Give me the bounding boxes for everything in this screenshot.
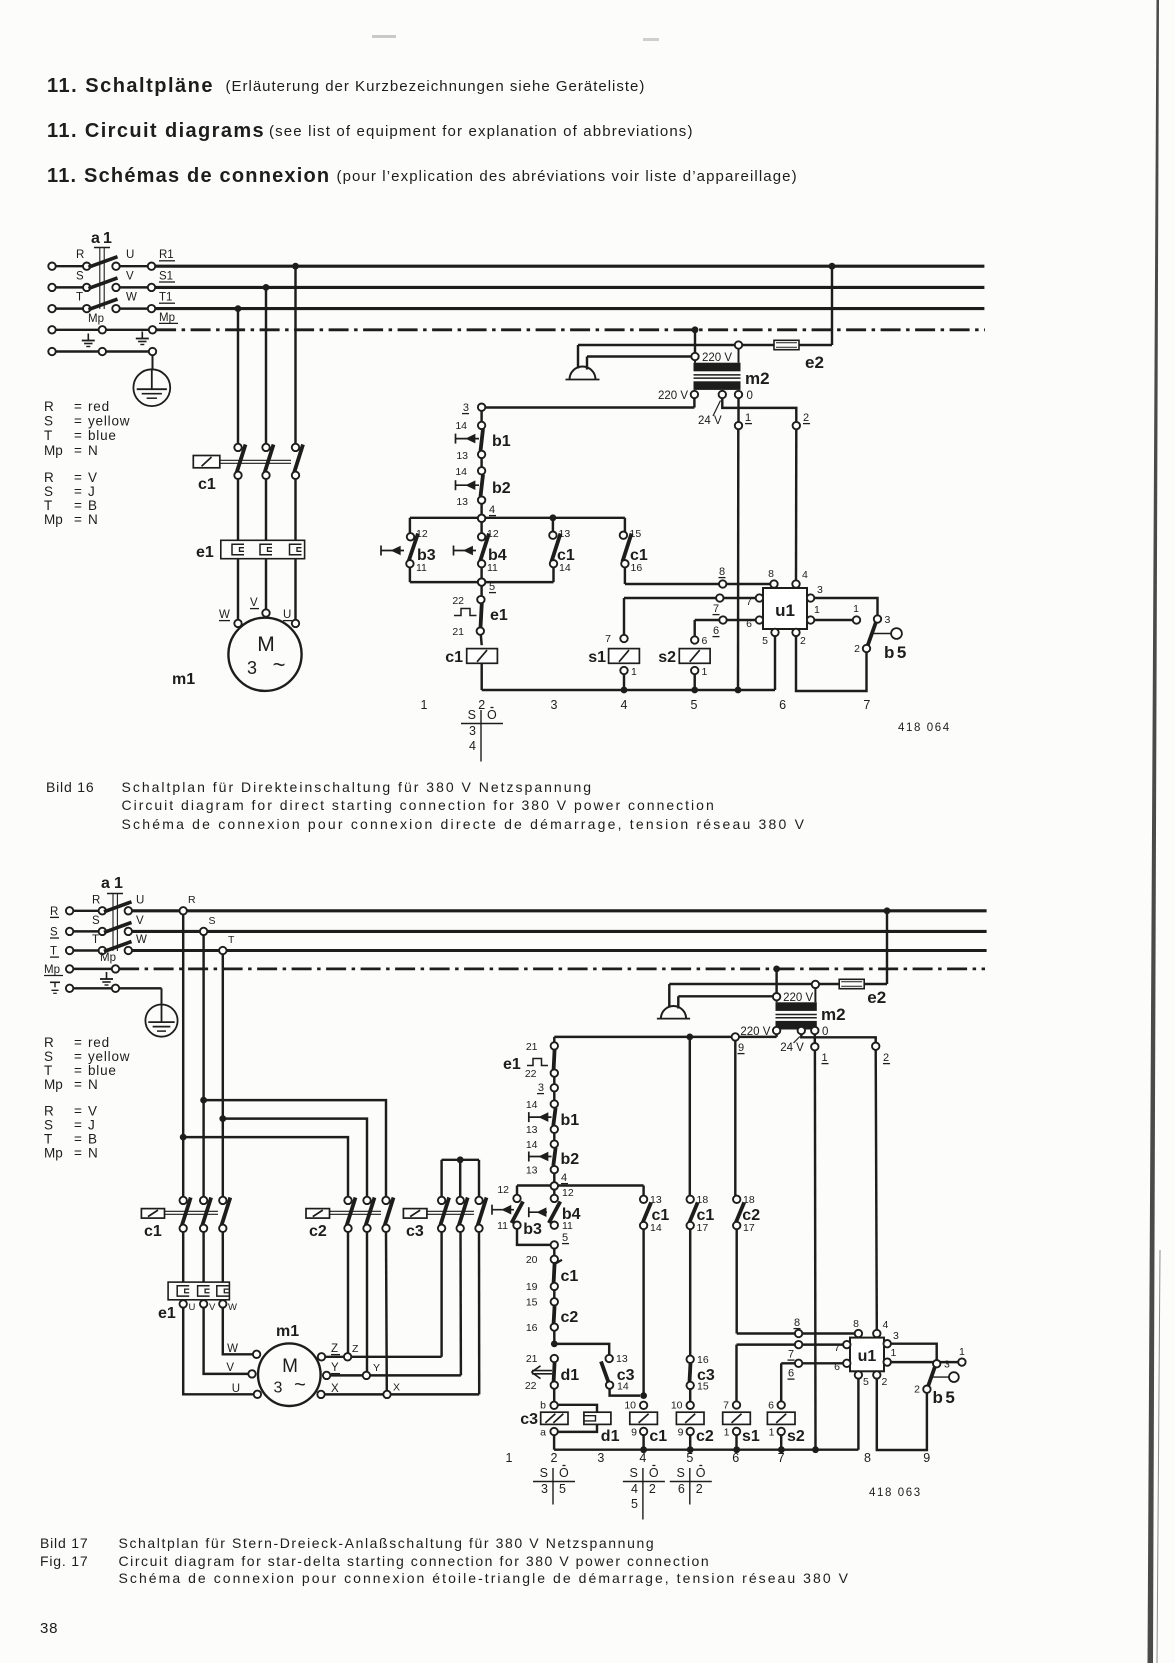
svg-text:W: W — [126, 292, 137, 304]
transformer m2 primary terminal right — [735, 341, 742, 348]
svg-text:T: T — [76, 292, 83, 304]
svg-text:S: S — [44, 1049, 53, 1064]
motor m1 left terminals — [253, 1351, 260, 1358]
svg-text:b5: b5 — [933, 1388, 958, 1407]
svg-text:S: S — [92, 915, 100, 927]
svg-text:6: 6 — [788, 1368, 794, 1380]
svg-text:c1: c1 — [649, 1428, 667, 1445]
svg-text:0: 0 — [747, 390, 753, 402]
wire X row — [325, 1393, 480, 1395]
svg-text:14: 14 — [526, 1099, 538, 1111]
svg-text:Bild 16: Bild 16 — [46, 779, 94, 795]
wire secondary 0 to node 1 — [814, 1034, 816, 1043]
control rail top — [554, 1036, 776, 1038]
wire node 2 down to relay u1 pin 4 — [876, 1050, 877, 1330]
relay coil s2 — [693, 620, 695, 636]
svg-text:5: 5 — [686, 1451, 693, 1465]
overload relay e1 box — [221, 540, 305, 558]
svg-text:U: U — [136, 894, 144, 906]
svg-text:Fig. 17: Fig. 17 — [40, 1553, 88, 1569]
svg-text:2: 2 — [551, 1451, 558, 1465]
thermal contact e1 (21-22) — [553, 1037, 555, 1042]
bottom rail — [482, 689, 775, 691]
wire c3 right output — [478, 1232, 481, 1395]
svg-text:3: 3 — [274, 1380, 283, 1397]
svg-text:22: 22 — [525, 1380, 537, 1392]
wire line 8 — [625, 583, 771, 585]
svg-text:V: V — [136, 915, 144, 927]
auxiliary contact c1 (18-17) feeding coil c2 — [689, 1037, 691, 1196]
svg-text:S: S — [540, 1466, 548, 1480]
svg-text:19: 19 — [526, 1281, 538, 1293]
contactor c1 main contacts — [180, 1197, 187, 1204]
svg-text:N: N — [88, 443, 99, 458]
svg-text:=: = — [74, 1049, 82, 1064]
drop Mp to transformer m2 — [692, 326, 699, 333]
svg-text:38: 38 — [40, 1620, 58, 1637]
u1 pin 1 — [807, 616, 814, 623]
float switch b5 — [874, 615, 881, 622]
drop Mp to transformer m2 — [773, 966, 780, 973]
svg-text:J: J — [88, 484, 96, 499]
svg-text:e1: e1 — [158, 1305, 176, 1322]
svg-text:11. Circuit diagrams: 11. Circuit diagrams — [47, 120, 265, 142]
svg-text:U: U — [189, 1302, 196, 1313]
svg-text:W: W — [227, 1343, 238, 1355]
svg-text:220 V: 220 V — [658, 390, 688, 402]
float switch b5 — [933, 1360, 940, 1367]
svg-text:4: 4 — [561, 1172, 567, 1184]
svg-text:S: S — [44, 484, 53, 499]
svg-text:=: = — [74, 498, 82, 513]
wires c1 to overload e1 — [182, 1232, 184, 1282]
wire Y row — [330, 1374, 461, 1376]
svg-text:T: T — [228, 934, 235, 946]
level relay u1 — [850, 1338, 884, 1372]
svg-text:c2: c2 — [696, 1428, 714, 1445]
wires c1 to overload e1 — [237, 479, 239, 540]
svg-text:1: 1 — [702, 666, 708, 678]
svg-text:11. Schaltpläne: 11. Schaltpläne — [47, 75, 214, 97]
node 2 circle — [793, 422, 800, 429]
svg-text:5: 5 — [863, 1376, 869, 1388]
svg-text:Z: Z — [352, 1343, 359, 1355]
svg-text:=: = — [74, 484, 82, 499]
node 1 circle — [735, 422, 742, 429]
svg-text:O: O — [649, 1466, 659, 1480]
svg-text:Y: Y — [331, 1362, 339, 1374]
node 3 — [478, 404, 485, 411]
signal lamp wires — [578, 344, 735, 346]
wire line 6 — [781, 1362, 843, 1364]
coil c2 — [687, 1402, 694, 1409]
svg-text:yellow: yellow — [88, 414, 130, 429]
svg-text:22: 22 — [452, 595, 464, 607]
wire line 8 — [737, 1332, 855, 1334]
svg-text:=: = — [74, 512, 82, 527]
svg-text:=: = — [74, 443, 82, 458]
protective earth circle — [161, 988, 163, 1004]
svg-text:11: 11 — [562, 1220, 573, 1232]
svg-text:O: O — [696, 1466, 706, 1480]
svg-text:3: 3 — [944, 1359, 950, 1371]
u1 pin 2 — [873, 1371, 880, 1378]
svg-text:17: 17 — [743, 1222, 755, 1234]
svg-text:3: 3 — [538, 1082, 544, 1094]
svg-text:S: S — [630, 1466, 638, 1480]
valve coil d1 parallel loop — [558, 1405, 597, 1412]
wire node 2 down to relay u1 pin 4 — [795, 429, 798, 580]
svg-text:b2: b2 — [561, 1151, 580, 1168]
transformer m2 windings — [694, 363, 741, 372]
drop from bus T1 to contactor c1 — [235, 305, 242, 312]
svg-text:1: 1 — [103, 230, 112, 247]
svg-text:9: 9 — [678, 1427, 684, 1439]
svg-text:1: 1 — [814, 604, 820, 616]
svg-text:14: 14 — [455, 420, 467, 432]
svg-text:3: 3 — [885, 614, 891, 626]
overload relay e1 box — [168, 1282, 229, 1300]
svg-text:J: J — [88, 1118, 96, 1133]
svg-text:11. Schémas de connexion: 11. Schémas de connexion — [47, 165, 330, 187]
transformer m2 windings — [776, 1002, 817, 1011]
motor m1 right terminals — [318, 1353, 325, 1360]
svg-text:1: 1 — [891, 1347, 897, 1359]
svg-text:B: B — [88, 1132, 98, 1147]
protective earth circle — [152, 355, 154, 369]
main switch a1 linkage — [107, 893, 123, 895]
bus Mp dash-dot — [119, 968, 985, 971]
wire u1 pin 5 to bottom rail — [857, 1379, 859, 1450]
wire u1 pin2 to b5 — [796, 636, 867, 691]
relay coil s1 — [735, 1345, 737, 1402]
branch T to contactor c2 — [219, 1115, 226, 1122]
svg-text:e2: e2 — [805, 353, 824, 372]
b3 b4 bottom loop — [517, 1229, 551, 1245]
wire u1 pin 3 to b5 — [814, 598, 877, 615]
svg-text:4: 4 — [802, 569, 808, 581]
coil c3 with terminals a b — [550, 1402, 557, 1409]
svg-text:2: 2 — [800, 635, 806, 647]
svg-text:16: 16 — [631, 562, 643, 574]
svg-text:7: 7 — [788, 1349, 794, 1361]
svg-text:3: 3 — [893, 1330, 899, 1342]
svg-text:13: 13 — [526, 1165, 538, 1177]
svg-text:1: 1 — [114, 875, 123, 892]
node 2 circle — [872, 1043, 879, 1050]
svg-text:7: 7 — [746, 596, 752, 608]
coil c1 — [640, 1402, 647, 1409]
svg-text:(pour l’explication des abrévi: (pour l’explication des abréviations voi… — [337, 168, 798, 185]
svg-text:V: V — [250, 597, 258, 609]
svg-text:s2: s2 — [658, 649, 676, 666]
wire c2 left output — [347, 1232, 349, 1353]
fuse e2 — [742, 344, 774, 346]
svg-text:u1: u1 — [775, 601, 795, 620]
wires e1 to motor m1 — [237, 559, 239, 620]
svg-text:c1: c1 — [198, 476, 216, 493]
svg-text:6: 6 — [746, 618, 752, 630]
svg-text:7: 7 — [834, 1342, 840, 1354]
svg-text:7: 7 — [723, 1400, 729, 1412]
phase row S terminals and switch pole — [56, 286, 84, 288]
svg-text:9: 9 — [923, 1451, 930, 1465]
svg-text:N: N — [88, 1146, 99, 1161]
svg-text:V: V — [209, 1302, 216, 1313]
transformer m2 secondary terminals — [773, 1027, 780, 1034]
svg-text:6: 6 — [678, 1482, 685, 1496]
svg-text:220 V: 220 V — [702, 352, 732, 364]
svg-text:=: = — [74, 428, 82, 443]
wire node 1 down to bottom rail — [737, 429, 740, 690]
svg-text:7: 7 — [605, 633, 611, 645]
svg-text:d1: d1 — [561, 1367, 580, 1384]
wire line 7 — [737, 1343, 844, 1345]
svg-text:5: 5 — [762, 635, 768, 647]
u1 pin 6 — [756, 616, 763, 623]
branch R to contactor c2 — [180, 1134, 187, 1141]
wire c2 right output — [385, 1232, 388, 1391]
svg-text:Mp: Mp — [88, 313, 104, 325]
svg-text:22: 22 — [525, 1068, 537, 1080]
wire line 7 — [624, 597, 755, 599]
earth symbol small right — [141, 332, 143, 339]
svg-text:14: 14 — [559, 562, 571, 574]
bus R — [132, 909, 987, 912]
svg-text:u1: u1 — [858, 1348, 877, 1365]
tap S on bus — [200, 928, 207, 935]
svg-text:220 V: 220 V — [740, 1026, 770, 1038]
svg-text:8: 8 — [794, 1317, 800, 1329]
u1 pin 8 — [855, 1330, 862, 1337]
u1 pin 3 — [807, 594, 814, 601]
svg-text:Schéma de connexion pour conne: Schéma de connexion pour connexion étoil… — [119, 1570, 851, 1586]
svg-text:11: 11 — [497, 1220, 508, 1232]
transformer m2 primary terminal 220V — [691, 353, 698, 360]
node 4 rail — [517, 1184, 644, 1186]
svg-text:S: S — [676, 1466, 684, 1480]
svg-text:9: 9 — [738, 1042, 744, 1054]
svg-text:a: a — [101, 875, 110, 892]
svg-text:T1: T1 — [159, 292, 172, 304]
svg-text:3: 3 — [817, 584, 823, 596]
svg-text:R: R — [44, 470, 54, 485]
node 4 rail — [410, 517, 625, 519]
bus Mp dash-dot — [156, 328, 985, 331]
svg-text:R: R — [44, 1104, 54, 1119]
svg-text:1: 1 — [421, 698, 428, 712]
neutral row Mp — [56, 329, 99, 331]
u1 pin 4 — [792, 580, 799, 587]
node 5 — [551, 1241, 558, 1248]
svg-text:T: T — [44, 1063, 52, 1078]
svg-text:7: 7 — [713, 603, 719, 615]
svg-text:24 V: 24 V — [780, 1042, 804, 1054]
svg-text:=: = — [74, 1077, 82, 1092]
float switch b4 — [553, 1190, 555, 1195]
svg-text:Mp: Mp — [159, 312, 175, 324]
svg-text:m1: m1 — [276, 1323, 299, 1340]
svg-text:Mp: Mp — [44, 443, 63, 458]
contactor c2 main contacts — [344, 1197, 351, 1204]
contactor c3 main contacts — [438, 1197, 445, 1204]
svg-text:4: 4 — [639, 1451, 646, 1465]
phase row R terminals and switch pole — [56, 265, 84, 267]
svg-text:5: 5 — [631, 1497, 638, 1511]
svg-text:N: N — [88, 512, 99, 527]
svg-text:13: 13 — [616, 1353, 628, 1365]
svg-text:1: 1 — [853, 603, 859, 615]
svg-text:2: 2 — [478, 698, 485, 712]
motor m1 — [228, 618, 301, 691]
wire u1 pin 1 terminal — [891, 1361, 959, 1363]
contactor c1 coil box — [141, 1209, 164, 1219]
svg-text:=: = — [74, 414, 82, 429]
svg-text:5: 5 — [489, 581, 495, 593]
float switch b2 — [551, 1140, 558, 1147]
auxiliary contact c2 (15-16) — [551, 1298, 558, 1305]
svg-text:13: 13 — [456, 496, 468, 508]
u1 pin 2 — [792, 629, 799, 636]
scan speck — [372, 35, 396, 38]
svg-text:16: 16 — [697, 1354, 709, 1366]
main switch a1 linkage — [94, 247, 110, 249]
svg-text:=: = — [74, 1063, 82, 1078]
svg-text:21: 21 — [452, 626, 464, 638]
svg-text:B: B — [88, 498, 98, 513]
tap 9 on control rail — [732, 1033, 739, 1040]
node 1 circle — [811, 1043, 818, 1050]
float switch b3 — [409, 518, 411, 533]
svg-text:m2: m2 — [821, 1005, 846, 1024]
earth symbol small left — [87, 334, 89, 341]
bus S1 — [155, 286, 984, 289]
svg-text:V: V — [126, 270, 134, 282]
float switch b3 — [516, 1186, 518, 1195]
svg-text:4: 4 — [489, 504, 495, 516]
svg-text:(Erläuterung der Kurzbezeichnu: (Erläuterung der Kurzbezeichnungen siehe… — [226, 78, 646, 95]
drop from bus S1 to contactor c1 — [263, 284, 270, 291]
svg-text:2: 2 — [882, 1376, 888, 1388]
wire V to motor — [204, 1308, 249, 1374]
relay coil s2 — [780, 1363, 782, 1401]
signal lamp wires — [669, 983, 812, 985]
node 3 — [551, 1084, 558, 1091]
svg-text:s1: s1 — [742, 1428, 760, 1445]
wire e2 to bus R — [884, 907, 891, 914]
svg-text:4: 4 — [469, 739, 476, 753]
svg-text:e1: e1 — [490, 607, 508, 624]
u1 pin 7 — [843, 1341, 850, 1348]
overload outputs U V W — [180, 1300, 187, 1307]
svg-text:U: U — [232, 1383, 240, 1395]
svg-text:W: W — [228, 1302, 237, 1313]
bottom rail — [554, 1448, 858, 1450]
svg-text:N: N — [88, 1077, 99, 1092]
u1 pin 8 — [770, 580, 777, 587]
svg-text:s1: s1 — [588, 649, 606, 666]
svg-text:7: 7 — [863, 698, 870, 712]
svg-text:S1: S1 — [159, 270, 173, 282]
svg-text:c3: c3 — [406, 1223, 424, 1240]
svg-text:R: R — [188, 894, 196, 906]
bus S — [132, 930, 987, 933]
wire Z row — [325, 1356, 442, 1358]
phase row T terminals and switch pole — [56, 307, 84, 309]
u1 pin 6 — [843, 1360, 850, 1367]
svg-text:Circuit diagram for direct sta: Circuit diagram for direct starting conn… — [122, 797, 716, 813]
svg-text:c1: c1 — [144, 1223, 162, 1240]
contactor c3 coil box — [403, 1209, 427, 1219]
wire secondary 220V to control rail — [775, 1034, 777, 1037]
svg-text:5: 5 — [562, 1232, 568, 1244]
wire secondary 24V to node 2 — [722, 398, 796, 422]
svg-text:V: V — [88, 470, 98, 485]
bus T — [132, 949, 987, 952]
tap T on bus — [219, 947, 226, 954]
svg-text:3: 3 — [247, 658, 257, 678]
svg-text:10: 10 — [671, 1400, 683, 1412]
svg-text:4: 4 — [621, 698, 628, 712]
wire U to motor — [183, 1308, 254, 1395]
svg-text:c2: c2 — [309, 1223, 327, 1240]
svg-text:Y: Y — [373, 1362, 380, 1374]
svg-text:2: 2 — [854, 643, 860, 655]
svg-text:Schaltplan für Stern-Dreieck-A: Schaltplan für Stern-Dreieck-Anlaßschalt… — [119, 1535, 656, 1551]
svg-text:16: 16 — [526, 1322, 538, 1334]
svg-text:~: ~ — [294, 1374, 306, 1396]
svg-text:8: 8 — [768, 568, 774, 580]
svg-text:X: X — [393, 1382, 400, 1394]
auxiliary contact c1 (13-14) feeding coil c1 — [642, 1186, 644, 1196]
svg-text:(see list of equipment for exp: (see list of equipment for explanation o… — [269, 123, 694, 140]
transformer m2 primary terminal right — [812, 981, 819, 988]
svg-text:a: a — [540, 1427, 546, 1439]
earth row — [50, 981, 60, 983]
svg-text:Bild 17: Bild 17 — [40, 1535, 88, 1551]
tap R on bus — [180, 907, 187, 914]
svg-text:b2: b2 — [492, 480, 511, 497]
star bridge above c3 — [442, 1159, 479, 1161]
svg-text:2: 2 — [649, 1482, 656, 1496]
svg-text:6: 6 — [713, 625, 719, 637]
svg-text:O: O — [559, 1466, 569, 1480]
svg-text:17: 17 — [697, 1222, 709, 1234]
motor m1 terminals — [234, 620, 241, 627]
auxiliary contact c1 (15-16) — [624, 518, 626, 532]
svg-text:5: 5 — [691, 698, 698, 712]
svg-text:e2: e2 — [867, 988, 886, 1007]
svg-text:2: 2 — [803, 412, 809, 424]
wire secondary 220V to control rail — [693, 398, 695, 407]
svg-text:6: 6 — [702, 635, 708, 647]
u1 pin 1 — [884, 1358, 891, 1365]
svg-text:m2: m2 — [745, 369, 770, 388]
u1 pin 3 — [884, 1340, 891, 1347]
svg-text:3: 3 — [597, 1451, 604, 1465]
svg-text:1: 1 — [959, 1346, 965, 1358]
svg-text:R: R — [76, 249, 84, 261]
svg-text:red: red — [88, 1035, 110, 1050]
svg-text:Mp: Mp — [44, 512, 63, 527]
svg-text:15: 15 — [697, 1381, 709, 1393]
svg-text:2: 2 — [914, 1384, 920, 1396]
svg-text:c2: c2 — [561, 1309, 579, 1326]
svg-text:6: 6 — [768, 1400, 774, 1412]
svg-text:b3: b3 — [523, 1221, 542, 1238]
svg-text:14: 14 — [526, 1139, 538, 1151]
float switch b1 — [551, 1100, 558, 1107]
